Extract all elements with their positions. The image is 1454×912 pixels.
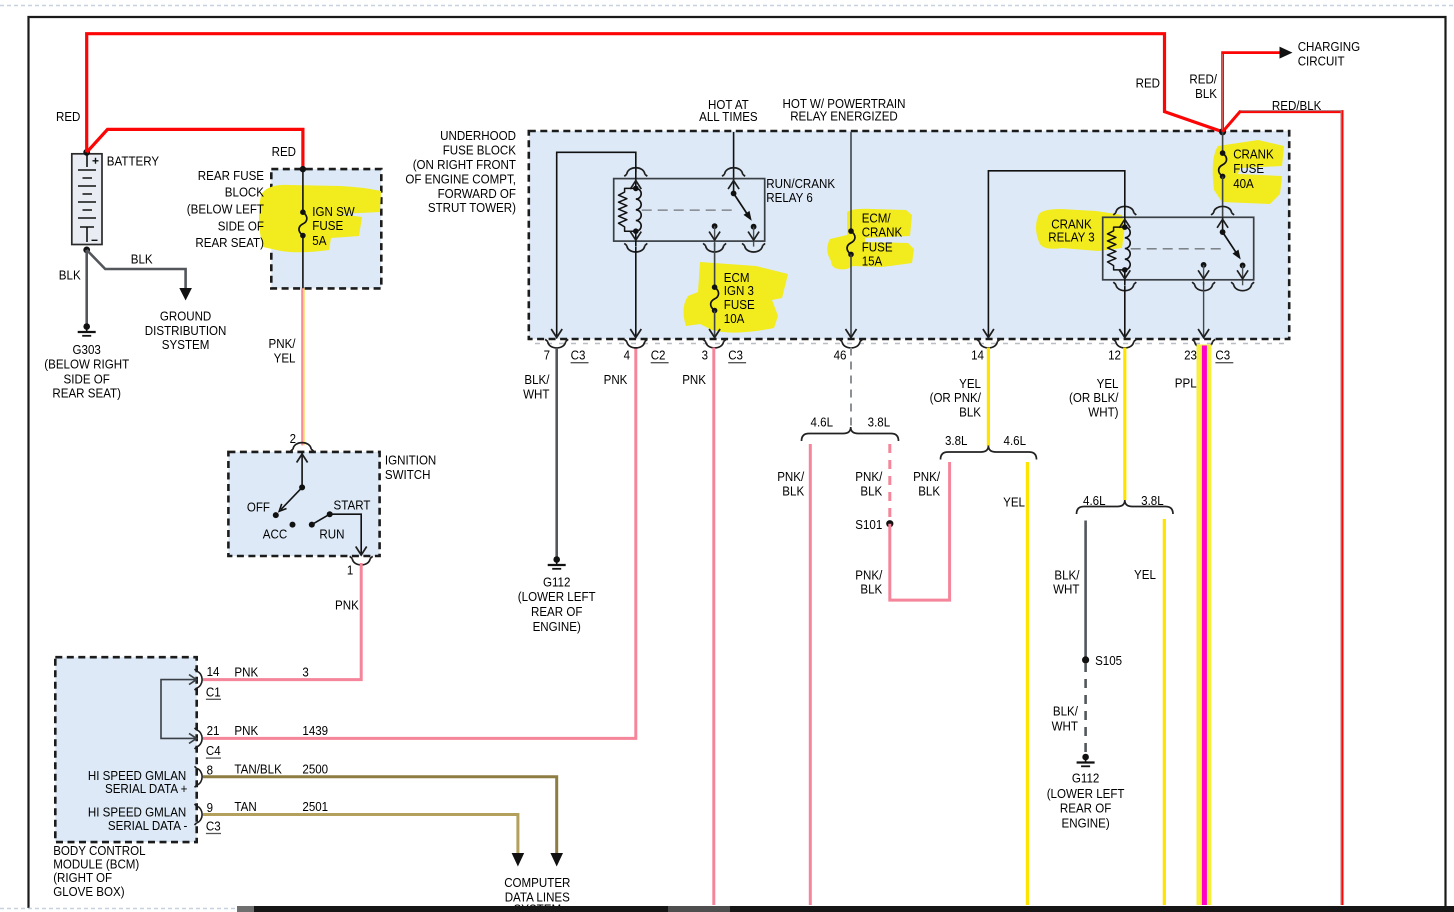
svg-text:C3: C3 bbox=[206, 819, 221, 834]
svg-text:SIDE OF: SIDE OF bbox=[64, 372, 110, 387]
label PNK/BLK (S101 below) bbox=[855, 567, 882, 596]
wire RED battery to rear fuse block bbox=[87, 129, 303, 169]
wire BLK battery to G303 bbox=[85, 250, 88, 324]
wire inside rear fuse block to fuse bbox=[302, 169, 304, 212]
wire relay 6 switch out to fuse ECM IGN 3 bbox=[714, 243, 716, 287]
svg-text:BLK: BLK bbox=[59, 267, 81, 282]
svg-text:4.6L: 4.6L bbox=[1083, 493, 1106, 508]
label PNK circuit 1439 bbox=[234, 723, 328, 738]
svg-text:2501: 2501 bbox=[302, 799, 328, 814]
BCM pin 8 bbox=[195, 762, 214, 787]
svg-text:S101: S101 bbox=[855, 517, 882, 532]
svg-text:CIRCUIT: CIRCUIT bbox=[1298, 54, 1345, 69]
battery B1 bbox=[72, 154, 102, 245]
label PNK circuit 3 (pin 14 wire) bbox=[234, 664, 308, 679]
label PNK/BLK (4.6L wire) bbox=[777, 469, 804, 498]
svg-text:1439: 1439 bbox=[302, 723, 328, 738]
svg-text:(LOWER LEFT: (LOWER LEFT bbox=[1047, 786, 1125, 801]
svg-text:RUN: RUN bbox=[319, 527, 344, 542]
label TAN/BLK 2500 bbox=[234, 761, 328, 776]
svg-text:FUSE: FUSE bbox=[312, 218, 343, 233]
ignition switch ACC contact bbox=[263, 522, 296, 542]
svg-text:COMPUTER: COMPUTER bbox=[504, 875, 570, 890]
svg-text:YEL: YEL bbox=[274, 350, 296, 365]
wire TAN circuit 2501 bbox=[203, 815, 518, 854]
svg-text:CRANK: CRANK bbox=[862, 225, 903, 240]
svg-text:4.6L: 4.6L bbox=[811, 414, 834, 429]
op relay CRANK RELAY 3 bbox=[1103, 205, 1254, 290]
svg-text:SERIAL DATA -: SERIAL DATA - bbox=[108, 818, 188, 833]
label PNK/BLK (loop riser) bbox=[913, 469, 940, 498]
svg-text:BLK: BLK bbox=[131, 252, 153, 267]
svg-text:PNK: PNK bbox=[234, 723, 258, 738]
svg-text:ENGINE): ENGINE) bbox=[533, 619, 581, 634]
svg-text:FORWARD OF: FORWARD OF bbox=[438, 186, 516, 201]
brace 3.8L/4.6L (pin 14 split) bbox=[941, 433, 1037, 459]
svg-text:OFF: OFF bbox=[247, 499, 270, 514]
svg-text:PNK/: PNK/ bbox=[269, 336, 296, 351]
svg-text:C3: C3 bbox=[1215, 348, 1230, 363]
wire BLK/WHT pin 7 to G112 bbox=[555, 348, 558, 557]
highlighter mark over IGN SW FUSE 5A bbox=[259, 185, 381, 252]
svg-text:23: 23 bbox=[1184, 348, 1197, 363]
label HI SPEED GMLAN SERIAL DATA - bbox=[88, 805, 188, 833]
svg-text:G112: G112 bbox=[543, 574, 571, 589]
svg-text:ECM/: ECM/ bbox=[862, 210, 891, 225]
svg-text:YEL: YEL bbox=[959, 376, 981, 391]
svg-text:(LOWER LEFT: (LOWER LEFT bbox=[518, 589, 596, 604]
svg-text:DISTRIBUTION: DISTRIBUTION bbox=[145, 323, 227, 338]
svg-text:SYSTEM: SYSTEM bbox=[162, 337, 210, 352]
wire junction to fuse CRANK 40A bbox=[1222, 132, 1224, 153]
svg-text:(OR BLK/: (OR BLK/ bbox=[1069, 390, 1119, 405]
label BLK (left) bbox=[59, 267, 81, 282]
label YEL (4.6L wire) bbox=[1003, 494, 1025, 509]
fuse ECM/CRANK FUSE 15A bbox=[847, 210, 902, 268]
svg-text:REAR SEAT): REAR SEAT) bbox=[52, 386, 121, 401]
label CHARGING CIRCUIT bbox=[1298, 39, 1360, 68]
label IGNITION SWITCH bbox=[385, 453, 436, 482]
svg-text:PNK/: PNK/ bbox=[855, 469, 882, 484]
wire YEL 4.6L down off page bbox=[1026, 462, 1029, 905]
fuse IGN SW FUSE 5A bbox=[299, 204, 355, 248]
svg-text:TAN: TAN bbox=[234, 799, 256, 814]
svg-text:RED: RED bbox=[1136, 75, 1160, 90]
battery negative terminal node bbox=[83, 247, 90, 254]
svg-text:(OR PNK/: (OR PNK/ bbox=[930, 390, 982, 405]
label RED/BLK (vertical riser) bbox=[1189, 71, 1217, 101]
svg-text:REAR OF: REAR OF bbox=[531, 604, 582, 619]
svg-text:ALL TIMES: ALL TIMES bbox=[699, 109, 758, 124]
wire fuse 40A to relay 3 switch bbox=[1222, 176, 1224, 217]
ignition switch OFF contact bbox=[247, 499, 279, 518]
label 1 bbox=[347, 563, 353, 578]
wire BLK/WHT brace to S105 bbox=[1084, 521, 1087, 658]
wire fuse 10A to pin 3 bbox=[709, 311, 720, 338]
svg-text:WHT): WHT) bbox=[1088, 405, 1118, 420]
battery positive terminal node bbox=[83, 149, 90, 156]
label YEL (OR PNK/BLK bbox=[930, 376, 982, 420]
svg-text:YEL: YEL bbox=[1097, 376, 1119, 391]
wire relay 3 coil feed L to pin 14 bbox=[983, 171, 1125, 338]
svg-text:C2: C2 bbox=[651, 348, 666, 363]
svg-text:YEL: YEL bbox=[1134, 567, 1156, 582]
svg-text:RED/BLK: RED/BLK bbox=[1272, 98, 1322, 113]
svg-text:PNK/: PNK/ bbox=[777, 469, 804, 484]
wire PNK/BLK S101 loop to 3.8L brace bbox=[890, 462, 950, 600]
svg-text:2: 2 bbox=[290, 431, 296, 446]
arrow TAN to computer data lines bbox=[512, 853, 525, 867]
svg-text:ENGINE): ENGINE) bbox=[1062, 815, 1110, 830]
label HOT AT ALL TIMES bbox=[699, 97, 758, 124]
svg-text:IGN 3: IGN 3 bbox=[724, 283, 754, 298]
label PNK (pin 4 wire) bbox=[604, 372, 628, 387]
svg-text:14: 14 bbox=[207, 664, 220, 679]
wire PNK ignition pin 1 to BCM pin 14 bbox=[203, 563, 361, 680]
svg-text:REAR FUSE: REAR FUSE bbox=[198, 168, 264, 183]
svg-text:3: 3 bbox=[702, 348, 708, 363]
highlighter mark over ECM/CRANK FUSE 15A bbox=[827, 209, 914, 270]
svg-text:40A: 40A bbox=[1233, 176, 1254, 191]
wire TAN/BLK circuit 2500 bbox=[203, 777, 557, 853]
wire fuse 15A to pin 46 bbox=[846, 254, 857, 337]
svg-text:4.6L: 4.6L bbox=[1004, 433, 1027, 448]
svg-text:PNK/: PNK/ bbox=[913, 469, 940, 484]
label PNK (pin 3 wire) bbox=[682, 372, 706, 387]
svg-text:46: 46 bbox=[834, 348, 847, 363]
arrow TAN/BLK to computer data lines bbox=[550, 853, 563, 867]
svg-text:3.8L: 3.8L bbox=[945, 433, 968, 448]
pin 2 connector arc bbox=[291, 443, 314, 452]
brace 4.6L/3.8L (pin 12 split) bbox=[1077, 493, 1174, 514]
svg-text:C1: C1 bbox=[206, 684, 221, 699]
svg-text:UNDERHOOD: UNDERHOOD bbox=[440, 128, 516, 143]
svg-text:BLK: BLK bbox=[860, 582, 882, 597]
label YEL (3.8L wire) bbox=[1134, 567, 1156, 582]
svg-text:REAR OF: REAR OF bbox=[1060, 801, 1111, 816]
wire PNK/BLK 4.6L down off page bbox=[809, 444, 812, 905]
svg-text:BLK: BLK bbox=[860, 483, 882, 498]
fuse CRANK FUSE 40A bbox=[1219, 147, 1274, 192]
label UNDERHOOD FUSE BLOCK (ON RIGHT FRONT OF ENGINE COMPT, FORWARD OF STRUT TOWER) bbox=[405, 128, 516, 215]
wire relay 3 switch out to pin 23 bbox=[1198, 282, 1209, 338]
label TAN 2501 bbox=[234, 799, 328, 814]
wire RED/BLK junction up to charging circuit bbox=[1223, 53, 1280, 132]
svg-text:14: 14 bbox=[971, 348, 984, 363]
svg-text:S105: S105 bbox=[1095, 653, 1122, 668]
BCM internal bracket pins 14-21 bbox=[161, 675, 197, 744]
pin 46 connector bbox=[834, 339, 863, 362]
svg-text:SWITCH: SWITCH bbox=[385, 467, 431, 482]
ground G112 (right) bbox=[1047, 754, 1125, 831]
label YEL (OR BLK/WHT) bbox=[1069, 376, 1119, 420]
brace 4.6L/3.8L (pin 46 split) bbox=[802, 414, 899, 441]
svg-text:(ON RIGHT FRONT: (ON RIGHT FRONT bbox=[413, 157, 516, 172]
svg-text:STRUT TOWER): STRUT TOWER) bbox=[428, 200, 516, 215]
svg-text:BLK: BLK bbox=[918, 483, 940, 498]
label CRANK RELAY 3 bbox=[1048, 216, 1095, 244]
svg-text:9: 9 bbox=[207, 800, 213, 815]
svg-text:BLK: BLK bbox=[782, 483, 804, 498]
splice S105 bbox=[1082, 653, 1122, 668]
label PPL bbox=[1175, 375, 1197, 390]
label REAR FUSE BLOCK (BELOW LEFT SIDE OF REAR SEAT) bbox=[187, 168, 264, 250]
label RED (top left) bbox=[56, 109, 80, 124]
ignition switch RUN contact bbox=[309, 514, 345, 542]
wire relay 6 coil out to pin 4 bbox=[630, 247, 641, 338]
BCM pin 14 C1 bbox=[195, 664, 222, 699]
label PNK (ignition to BCM) bbox=[335, 597, 359, 612]
BCM pin 21 C4 bbox=[195, 723, 222, 758]
svg-text:RED: RED bbox=[272, 144, 296, 159]
label BLK/WHT (dashed section) bbox=[1052, 704, 1079, 734]
svg-text:GROUND: GROUND bbox=[160, 309, 211, 324]
svg-text:15A: 15A bbox=[862, 254, 883, 269]
wire START to pin 1 bbox=[330, 514, 367, 555]
label BLK/WHT (above S105) bbox=[1053, 567, 1080, 596]
svg-text:(RIGHT OF: (RIGHT OF bbox=[53, 870, 112, 885]
highlighter mark over CRANK FUSE 40A bbox=[1213, 140, 1284, 204]
arrow to ground distribution system bbox=[145, 288, 227, 352]
svg-text:21: 21 bbox=[207, 723, 220, 738]
svg-text:5A: 5A bbox=[312, 233, 326, 248]
wire hot-at-all-times feed into relay 6 bbox=[733, 132, 735, 179]
pin 1 connector arc bbox=[350, 556, 373, 565]
label BLK/WHT (pin 7 wire) bbox=[523, 372, 550, 401]
svg-text:IGN SW: IGN SW bbox=[312, 204, 355, 219]
wire hot-w-powertrain feed to fuse 15A bbox=[850, 132, 852, 231]
svg-text:7: 7 bbox=[544, 348, 550, 363]
svg-text:10A: 10A bbox=[724, 311, 745, 326]
bottom scrollbar left button bbox=[237, 906, 254, 912]
svg-text:BLK: BLK bbox=[1195, 86, 1217, 101]
wire PNK circuit 1439 BCM pin 21 to underhood pin 4 bbox=[203, 348, 636, 739]
label 2 (ignition switch pin) bbox=[290, 431, 296, 446]
svg-text:BLK/: BLK/ bbox=[1054, 567, 1079, 582]
body control module BCM (block body) bbox=[55, 657, 196, 842]
wire YEL pin 12 to brace bbox=[1123, 348, 1126, 501]
svg-text:WHT: WHT bbox=[1053, 582, 1079, 597]
page top boundary dashed line bbox=[0, 5, 1454, 7]
svg-text:RED/: RED/ bbox=[1189, 71, 1217, 86]
bottom scrollbar track bbox=[237, 906, 1454, 912]
wire RED/BLK junction to right rail down bbox=[1223, 111, 1342, 905]
svg-text:2500: 2500 bbox=[302, 761, 328, 776]
wire PNK/BLK dashed 3.8L to S101 bbox=[888, 444, 891, 520]
svg-text:4: 4 bbox=[624, 348, 630, 363]
svg-text:G112: G112 bbox=[1072, 771, 1100, 786]
svg-text:FUSE: FUSE bbox=[724, 297, 755, 312]
svg-text:BLK: BLK bbox=[959, 405, 981, 420]
svg-text:(BELOW LEFT: (BELOW LEFT bbox=[187, 201, 264, 216]
label BODY CONTROL MODULE (BCM) (RIGHT OF GLOVE BOX) bbox=[53, 843, 145, 899]
pin 12 connector bbox=[1108, 339, 1136, 362]
splice S101 bbox=[855, 517, 893, 532]
svg-text:(BELOW RIGHT: (BELOW RIGHT bbox=[44, 356, 129, 371]
wire PNK/YEL rear fuse block to ignition switch bbox=[302, 288, 304, 445]
label RED (at rear fuse block) bbox=[272, 144, 296, 159]
label BATTERY bbox=[107, 154, 160, 169]
label HI SPEED GMLAN SERIAL DATA + bbox=[88, 768, 188, 796]
pin 14 connector bbox=[971, 339, 1000, 362]
svg-text:WHT: WHT bbox=[523, 387, 549, 402]
svg-text:START: START bbox=[334, 498, 371, 513]
ground G112 (left) bbox=[518, 556, 596, 634]
svg-text:G303: G303 bbox=[73, 342, 101, 357]
wire RED battery to top rail and across bbox=[87, 34, 1223, 153]
svg-text:3.8L: 3.8L bbox=[1141, 493, 1164, 508]
wire BLK battery to ground distribution bbox=[87, 250, 186, 288]
svg-text:ACC: ACC bbox=[263, 527, 287, 542]
svg-text:RELAY 6: RELAY 6 bbox=[766, 190, 813, 205]
svg-text:RUN/CRANK: RUN/CRANK bbox=[766, 176, 835, 191]
svg-text:CHARGING: CHARGING bbox=[1298, 39, 1360, 54]
svg-text:IGNITION: IGNITION bbox=[385, 453, 436, 468]
svg-text:BLK/: BLK/ bbox=[1053, 704, 1078, 719]
svg-text:OF ENGINE COMPT,: OF ENGINE COMPT, bbox=[405, 172, 516, 187]
ignition switch START contact bbox=[327, 498, 371, 518]
svg-text:C3: C3 bbox=[728, 348, 743, 363]
svg-text:SIDE OF: SIDE OF bbox=[218, 219, 264, 234]
op relay RUN/CRANK RELAY 6 bbox=[614, 167, 765, 252]
svg-text:WHT: WHT bbox=[1052, 718, 1078, 733]
wire YEL pin 14 to brace bbox=[987, 348, 990, 447]
fuse ECM IGN 3 FUSE 10A bbox=[711, 270, 755, 326]
bottom scrollbar thumb bbox=[668, 906, 730, 912]
svg-text:C3: C3 bbox=[571, 348, 586, 363]
svg-text:FUSE: FUSE bbox=[1233, 161, 1264, 176]
label RED/BLK (right rail) bbox=[1272, 98, 1322, 113]
svg-text:C4: C4 bbox=[206, 743, 221, 758]
label COMPUTER DATA LINES SYSTEM bbox=[504, 875, 570, 912]
svg-text:PNK: PNK bbox=[335, 597, 359, 612]
label RED (top rail right) bbox=[1136, 75, 1160, 90]
label PNK/BLK (3.8L dashed wire) bbox=[855, 469, 882, 498]
svg-text:3: 3 bbox=[302, 664, 308, 679]
wire PNK pin 3 down off page bbox=[712, 348, 715, 906]
rear fuse block (block body) bbox=[271, 169, 381, 288]
svg-text:BODY CONTROL: BODY CONTROL bbox=[53, 843, 145, 858]
wire relay 6 coil feed L to pin 7 bbox=[551, 152, 636, 337]
label HOT W/ POWERTRAIN RELAY ENERGIZED bbox=[783, 96, 906, 124]
svg-text:BLOCK: BLOCK bbox=[225, 185, 264, 200]
pin 3 C3 connector bbox=[702, 339, 747, 362]
node junction red feed at block top bbox=[1219, 128, 1226, 135]
svg-text:GLOVE BOX): GLOVE BOX) bbox=[53, 884, 124, 899]
wire dashed grey pin 46 to splice brace bbox=[850, 348, 852, 429]
svg-text:RED: RED bbox=[56, 109, 80, 124]
wire fuse to rear block bottom bbox=[302, 236, 304, 289]
wire YEL 3.8L down off page bbox=[1163, 519, 1166, 905]
highlighter mark along PPL wire bbox=[1197, 345, 1212, 906]
svg-text:FUSE: FUSE bbox=[862, 240, 893, 255]
svg-text:3.8L: 3.8L bbox=[868, 414, 891, 429]
wire PPL pin 23 down off page bbox=[1202, 346, 1207, 906]
svg-text:12: 12 bbox=[1108, 348, 1121, 363]
ignition switch (block body) bbox=[228, 452, 379, 556]
pin 4 C2 connector bbox=[624, 339, 669, 362]
svg-text:SERIAL DATA +: SERIAL DATA + bbox=[105, 781, 187, 796]
svg-text:YEL: YEL bbox=[1003, 494, 1025, 509]
svg-text:FUSE BLOCK: FUSE BLOCK bbox=[443, 143, 517, 158]
svg-text:PNK: PNK bbox=[682, 372, 706, 387]
svg-text:8: 8 bbox=[207, 762, 213, 777]
ground G303 bbox=[44, 323, 129, 401]
svg-text:REAR SEAT): REAR SEAT) bbox=[195, 235, 264, 250]
underhood fuse block (block body) bbox=[529, 131, 1289, 344]
wire BLK/WHT dashed S105 to G112 bbox=[1084, 663, 1087, 754]
svg-text:TAN/BLK: TAN/BLK bbox=[234, 761, 282, 776]
node junction at rear fuse block top bbox=[300, 166, 306, 172]
svg-text:BLK/: BLK/ bbox=[524, 372, 549, 387]
svg-text:PPL: PPL bbox=[1175, 375, 1197, 390]
svg-text:PNK: PNK bbox=[604, 372, 628, 387]
svg-text:RELAY 3: RELAY 3 bbox=[1048, 230, 1095, 245]
highlighter mark over ECM IGN 3 FUSE 10A bbox=[683, 262, 788, 333]
svg-text:RELAY ENERGIZED: RELAY ENERGIZED bbox=[790, 109, 898, 124]
BCM pin 9 C3 bbox=[195, 800, 222, 834]
pin 7 C3 connector bbox=[544, 339, 589, 362]
label RUN/CRANK RELAY 6 bbox=[766, 176, 835, 205]
svg-text:1: 1 bbox=[347, 563, 353, 578]
label PNK/YEL bbox=[269, 336, 296, 365]
arrow to charging circuit bbox=[1280, 47, 1293, 59]
ignition switch rotor wire bbox=[279, 452, 307, 511]
page bottom boundary dashed line bbox=[0, 908, 237, 910]
wire relay 3 coil out to pin 12 bbox=[1119, 286, 1130, 338]
svg-text:CRANK: CRANK bbox=[1233, 147, 1274, 162]
svg-text:PNK/: PNK/ bbox=[855, 567, 882, 582]
pin 23 C3 connector bbox=[1184, 339, 1233, 362]
highlighter mark over CRANK RELAY 3 bbox=[1036, 209, 1125, 251]
svg-text:PNK: PNK bbox=[234, 664, 258, 679]
label BLK (diagonal wire) bbox=[131, 252, 153, 267]
svg-text:BATTERY: BATTERY bbox=[107, 154, 160, 169]
